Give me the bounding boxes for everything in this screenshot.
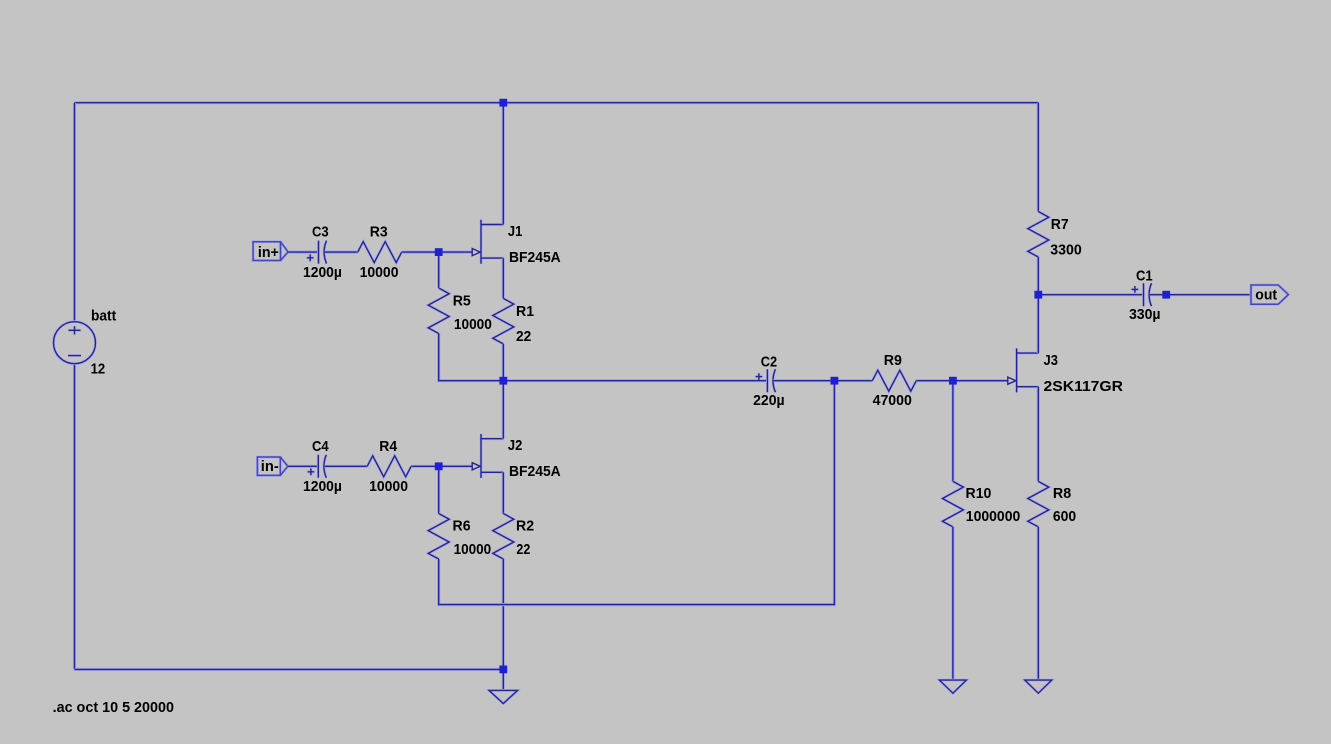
wire C1 to out port [1150, 293, 1252, 296]
wire R1 bottom [502, 344, 505, 381]
svg-text:in+: in+ [258, 244, 279, 261]
svg-text:batt: batt [91, 308, 116, 325]
svg-text:R8: R8 [1053, 485, 1071, 502]
svg-text:BF245A: BF245A [509, 463, 561, 480]
resistor R9 [872, 352, 916, 409]
wire left rail lower [73, 364, 76, 670]
svg-text:22: 22 [516, 541, 530, 558]
wire left rail upper [73, 103, 76, 322]
port in+ [253, 242, 288, 262]
wire mid line to C2 [503, 379, 767, 382]
wire node to R9 [834, 379, 872, 382]
capacitor C3 [303, 224, 342, 281]
svg-text:R6: R6 [453, 517, 471, 534]
svg-text:R10: R10 [966, 485, 992, 502]
wire out line to C1 [1038, 293, 1143, 296]
transistor J3 [1008, 348, 1123, 395]
svg-text:.ac oct 10 5 20000: .ac oct 10 5 20000 [53, 699, 174, 716]
svg-text:22: 22 [516, 328, 531, 345]
wire R8 to ground [1037, 527, 1040, 680]
wire node to J2 gate [439, 465, 473, 468]
node mid [499, 377, 507, 385]
node after C2 [831, 377, 839, 385]
svg-text:1200µ: 1200µ [303, 264, 342, 281]
wire bottom rail [75, 668, 504, 671]
wire R6 top stem [437, 466, 440, 513]
wire node to J1 gate [439, 251, 473, 254]
resistor R1 [493, 298, 534, 344]
wire J3 source [1037, 387, 1040, 482]
svg-text:R2: R2 [516, 517, 534, 534]
svg-text:J2: J2 [508, 437, 522, 454]
wire R7 top [1037, 103, 1040, 212]
ground R10 [939, 680, 966, 693]
wire J1 drain [502, 103, 505, 225]
wire R10 to ground [951, 527, 954, 680]
resistor R7 [1028, 212, 1082, 259]
ground R8 [1025, 680, 1052, 693]
svg-text:R9: R9 [884, 352, 902, 369]
resistor R4 [367, 438, 411, 495]
svg-text:C1: C1 [1136, 268, 1153, 285]
node top rail [499, 99, 507, 107]
wire C3 to R3 [325, 251, 358, 254]
svg-text:C2: C2 [761, 353, 777, 370]
svg-text:10000: 10000 [454, 541, 492, 558]
wire R2 bottom [502, 559, 505, 669]
svg-text:R7: R7 [1051, 216, 1069, 233]
node after C1 [1162, 291, 1170, 299]
wire in+ lead [288, 251, 318, 254]
svg-text:J3: J3 [1044, 352, 1058, 369]
svg-text:47000: 47000 [873, 392, 912, 409]
wire J3 drain [1037, 295, 1040, 353]
wire J2 drain [502, 381, 505, 439]
wire in- lead [288, 465, 319, 468]
svg-text:600: 600 [1053, 508, 1076, 525]
node J2 gate [435, 462, 443, 470]
resistor R6 [428, 514, 491, 560]
svg-text:in-: in- [261, 458, 279, 475]
svg-text:R1: R1 [516, 303, 534, 320]
svg-text:R4: R4 [379, 438, 398, 455]
wire J1 source [502, 258, 505, 298]
node J1 gate [435, 248, 443, 256]
svg-text:12: 12 [91, 361, 106, 378]
wire ground stem [502, 669, 505, 690]
wire R10 top stem [951, 381, 954, 482]
port in- [257, 457, 287, 475]
wire C4 to R4 [324, 465, 367, 468]
svg-text:220µ: 220µ [753, 392, 785, 409]
svg-text:3300: 3300 [1050, 241, 1081, 258]
wire R3 to node [402, 251, 439, 254]
wire R5 bottom to mid node [439, 334, 504, 381]
node after R9 [949, 377, 957, 385]
ground mid [489, 690, 518, 703]
svg-text:out: out [1255, 287, 1277, 304]
resistor R2 [493, 514, 534, 560]
svg-text:10000: 10000 [454, 316, 492, 333]
resistor R3 [358, 224, 402, 281]
wire top rail [75, 101, 1039, 104]
wire C2 to node [773, 379, 834, 382]
capacitor C1 [1129, 268, 1161, 324]
node J3 drain [1034, 291, 1042, 299]
svg-text:C4: C4 [312, 438, 329, 455]
wire R4 to node [411, 465, 439, 468]
transistor J1 [472, 220, 561, 266]
svg-text:1200µ: 1200µ [303, 478, 342, 495]
svg-text:2SK117GR: 2SK117GR [1044, 378, 1124, 395]
wire R6 feedback [439, 381, 835, 605]
wire R7 bottom [1037, 257, 1040, 295]
svg-text:J1: J1 [508, 223, 522, 240]
capacitor C2 [753, 353, 785, 409]
svg-text:10000: 10000 [369, 478, 408, 495]
wire J2 source [502, 472, 505, 513]
svg-text:R5: R5 [453, 292, 471, 309]
wire node to J3 gate [953, 379, 1008, 382]
resistor R10 [942, 481, 1020, 526]
capacitor C4 [303, 438, 342, 495]
svg-text:C3: C3 [312, 224, 329, 241]
wire R5 top stem [437, 252, 440, 288]
node bottom rail [499, 666, 507, 674]
svg-text:10000: 10000 [360, 264, 399, 281]
voltage source batt [54, 308, 117, 378]
resistor R8 [1028, 481, 1076, 526]
wire R9 to node [916, 379, 953, 382]
port out [1251, 285, 1288, 304]
transistor J2 [472, 434, 561, 480]
svg-text:BF245A: BF245A [509, 249, 561, 266]
svg-text:1000000: 1000000 [966, 508, 1021, 525]
svg-text:R3: R3 [370, 224, 388, 241]
svg-text:330µ: 330µ [1129, 306, 1161, 323]
resistor R5 [428, 288, 492, 334]
